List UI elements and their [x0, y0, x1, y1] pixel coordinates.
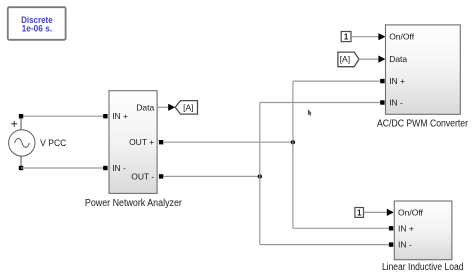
wire V PCC + to PNA IN+ — [21, 115, 104, 117]
wire OUT+ to junction — [163, 141, 293, 143]
constant block 1 (top) — [341, 32, 351, 42]
subsystem Power Network Analyzer — [109, 91, 157, 194]
svg-text:Data: Data — [389, 54, 407, 64]
svg-text:AC/DC PWM Converter: AC/DC PWM Converter — [377, 119, 469, 130]
arrowhead On/Off ACDC — [378, 33, 385, 40]
svg-text:1: 1 — [344, 33, 349, 42]
svg-text:IN -: IN - — [112, 163, 126, 173]
svg-text:IN +: IN + — [389, 76, 405, 86]
arrowhead into Goto A — [168, 104, 175, 111]
svg-text:Data: Data — [136, 102, 154, 112]
AC voltage source V PCC — [9, 130, 35, 156]
svg-text:Power Network Analyzer: Power Network Analyzer — [85, 198, 183, 209]
svg-text:IN +: IN + — [398, 223, 414, 233]
wire V PCC - to PNA IN- — [21, 167, 104, 169]
wire to Load IN- — [260, 244, 389, 246]
wire to ACDC IN+ — [293, 80, 381, 82]
junction node OUT- — [258, 174, 262, 178]
svg-text:[A]: [A] — [340, 54, 350, 64]
port pad PNA IN- — [103, 166, 107, 170]
wire OUT- to junction — [163, 175, 259, 177]
svg-text:Linear Inductive Load: Linear Inductive Load — [382, 262, 464, 273]
node pad V PCC + — [19, 114, 23, 118]
svg-text:IN -: IN - — [398, 240, 412, 250]
svg-text:On/Off: On/Off — [389, 32, 415, 42]
junction node OUT+ — [291, 140, 295, 144]
port pad PNA OUT+ — [159, 140, 163, 144]
port pad PNA OUT- — [159, 174, 163, 178]
wire to ACDC IN- — [260, 102, 381, 104]
svg-text:OUT +: OUT + — [129, 137, 154, 147]
wire constant to Load On/Off — [364, 211, 388, 213]
svg-text:[A]: [A] — [183, 102, 193, 112]
wire stub V PCC top — [20, 118, 22, 130]
wire to Load IN+ — [293, 227, 389, 229]
port pad Load IN+ — [389, 226, 393, 230]
powergui block Discrete 1e-06 s. — [8, 7, 66, 40]
node pad V PCC - — [19, 166, 23, 170]
svg-text:1: 1 — [357, 208, 362, 217]
subsystem Linear Inductive Load — [394, 201, 452, 260]
constant block 1 (bottom) — [355, 208, 364, 218]
svg-text:OUT -: OUT - — [131, 171, 154, 181]
wire vertical OUT+ branch — [292, 81, 294, 228]
port pad ACDC IN+ — [380, 79, 384, 83]
port pad Load IN- — [389, 242, 393, 246]
mouse cursor — [308, 109, 312, 116]
port pad PNA IN+ — [103, 114, 107, 118]
svg-text:IN -: IN - — [389, 98, 403, 108]
svg-text:On/Off: On/Off — [398, 207, 424, 217]
wire From A to Data — [359, 58, 379, 60]
arrowhead On/Off Load — [387, 209, 394, 216]
From tag [A] — [338, 52, 359, 67]
svg-text:IN +: IN + — [112, 111, 128, 121]
port pad ACDC IN- — [380, 100, 384, 104]
subsystem AC/DC PWM Converter — [386, 25, 461, 114]
svg-text:1e-06 s.: 1e-06 s. — [22, 24, 53, 34]
wire stub V PCC bottom — [20, 156, 22, 166]
arrowhead Data ACDC — [378, 56, 385, 63]
wire constant1 to On/Off — [351, 36, 379, 38]
wire Data to Goto A — [157, 106, 169, 108]
Goto tag [A] — [175, 101, 197, 115]
svg-text:V PCC: V PCC — [40, 138, 66, 149]
wire vertical OUT- branch — [259, 103, 261, 245]
V PCC plus sign — [11, 121, 17, 127]
